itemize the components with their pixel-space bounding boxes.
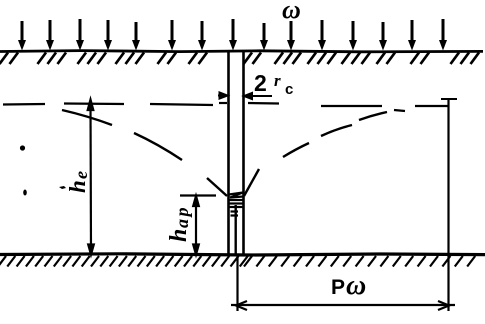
svg-text:r: r: [274, 71, 281, 90]
well inner pipe line: [234, 205, 236, 254]
tick at top of radius line: [441, 98, 457, 100]
load arrow 12: [349, 21, 357, 51]
svg-text:h: h: [65, 180, 90, 193]
load arrow 5: [132, 22, 140, 51]
svg-text:e: e: [71, 171, 91, 179]
load arrow 15: [439, 19, 447, 51]
load arrow 4: [104, 20, 112, 51]
dimension line he: [88, 100, 94, 255]
load arrow 7: [198, 21, 206, 51]
svg-text:ap: ap: [172, 205, 192, 228]
svg-text:P: P: [331, 276, 345, 299]
load arrow 14: [408, 20, 416, 51]
water level in well (scribble): [229, 193, 244, 216]
load arrow 8: [229, 19, 237, 51]
load arrow 3: [76, 19, 84, 51]
ground hatching (top): [0, 53, 479, 65]
scan speck 2: [23, 190, 27, 196]
drawdown curve (left of well), dashed: [62, 110, 227, 196]
svg-text:ω: ω: [346, 270, 366, 301]
load arrow 11: [318, 20, 326, 51]
dimension 2rc leader arrows: [218, 93, 272, 100]
well casing left wall: [227, 51, 230, 255]
base hatching: [0, 256, 475, 267]
extension line at radius of influence: [447, 99, 449, 311]
label he: [65, 171, 91, 193]
load arrow 2: [46, 20, 54, 51]
svg-text:h: h: [166, 229, 192, 242]
load arrow 1: [18, 21, 26, 51]
svg-text:ω: ω: [282, 0, 301, 24]
scan speck 1: [20, 145, 25, 150]
load arrow 6: [168, 20, 176, 51]
dimension line radius (P omega): [231, 301, 455, 310]
scan speck 3: [59, 186, 66, 189]
drawdown curve (right of well), dashed: [244, 112, 387, 196]
dimension line hap: [180, 196, 216, 255]
impermeable base line: [0, 254, 485, 255]
load arrow 9: [260, 23, 268, 51]
ground surface line: [0, 51, 483, 52]
load arrow 13: [379, 22, 387, 51]
load arrow 10: [287, 21, 295, 51]
water table (initial level) dashed line: [3, 103, 448, 111]
label hap: [166, 205, 192, 242]
svg-text:2: 2: [254, 70, 267, 96]
well casing right wall: [242, 51, 245, 255]
svg-text:c: c: [285, 81, 293, 98]
extension line at well center: [236, 256, 238, 311]
